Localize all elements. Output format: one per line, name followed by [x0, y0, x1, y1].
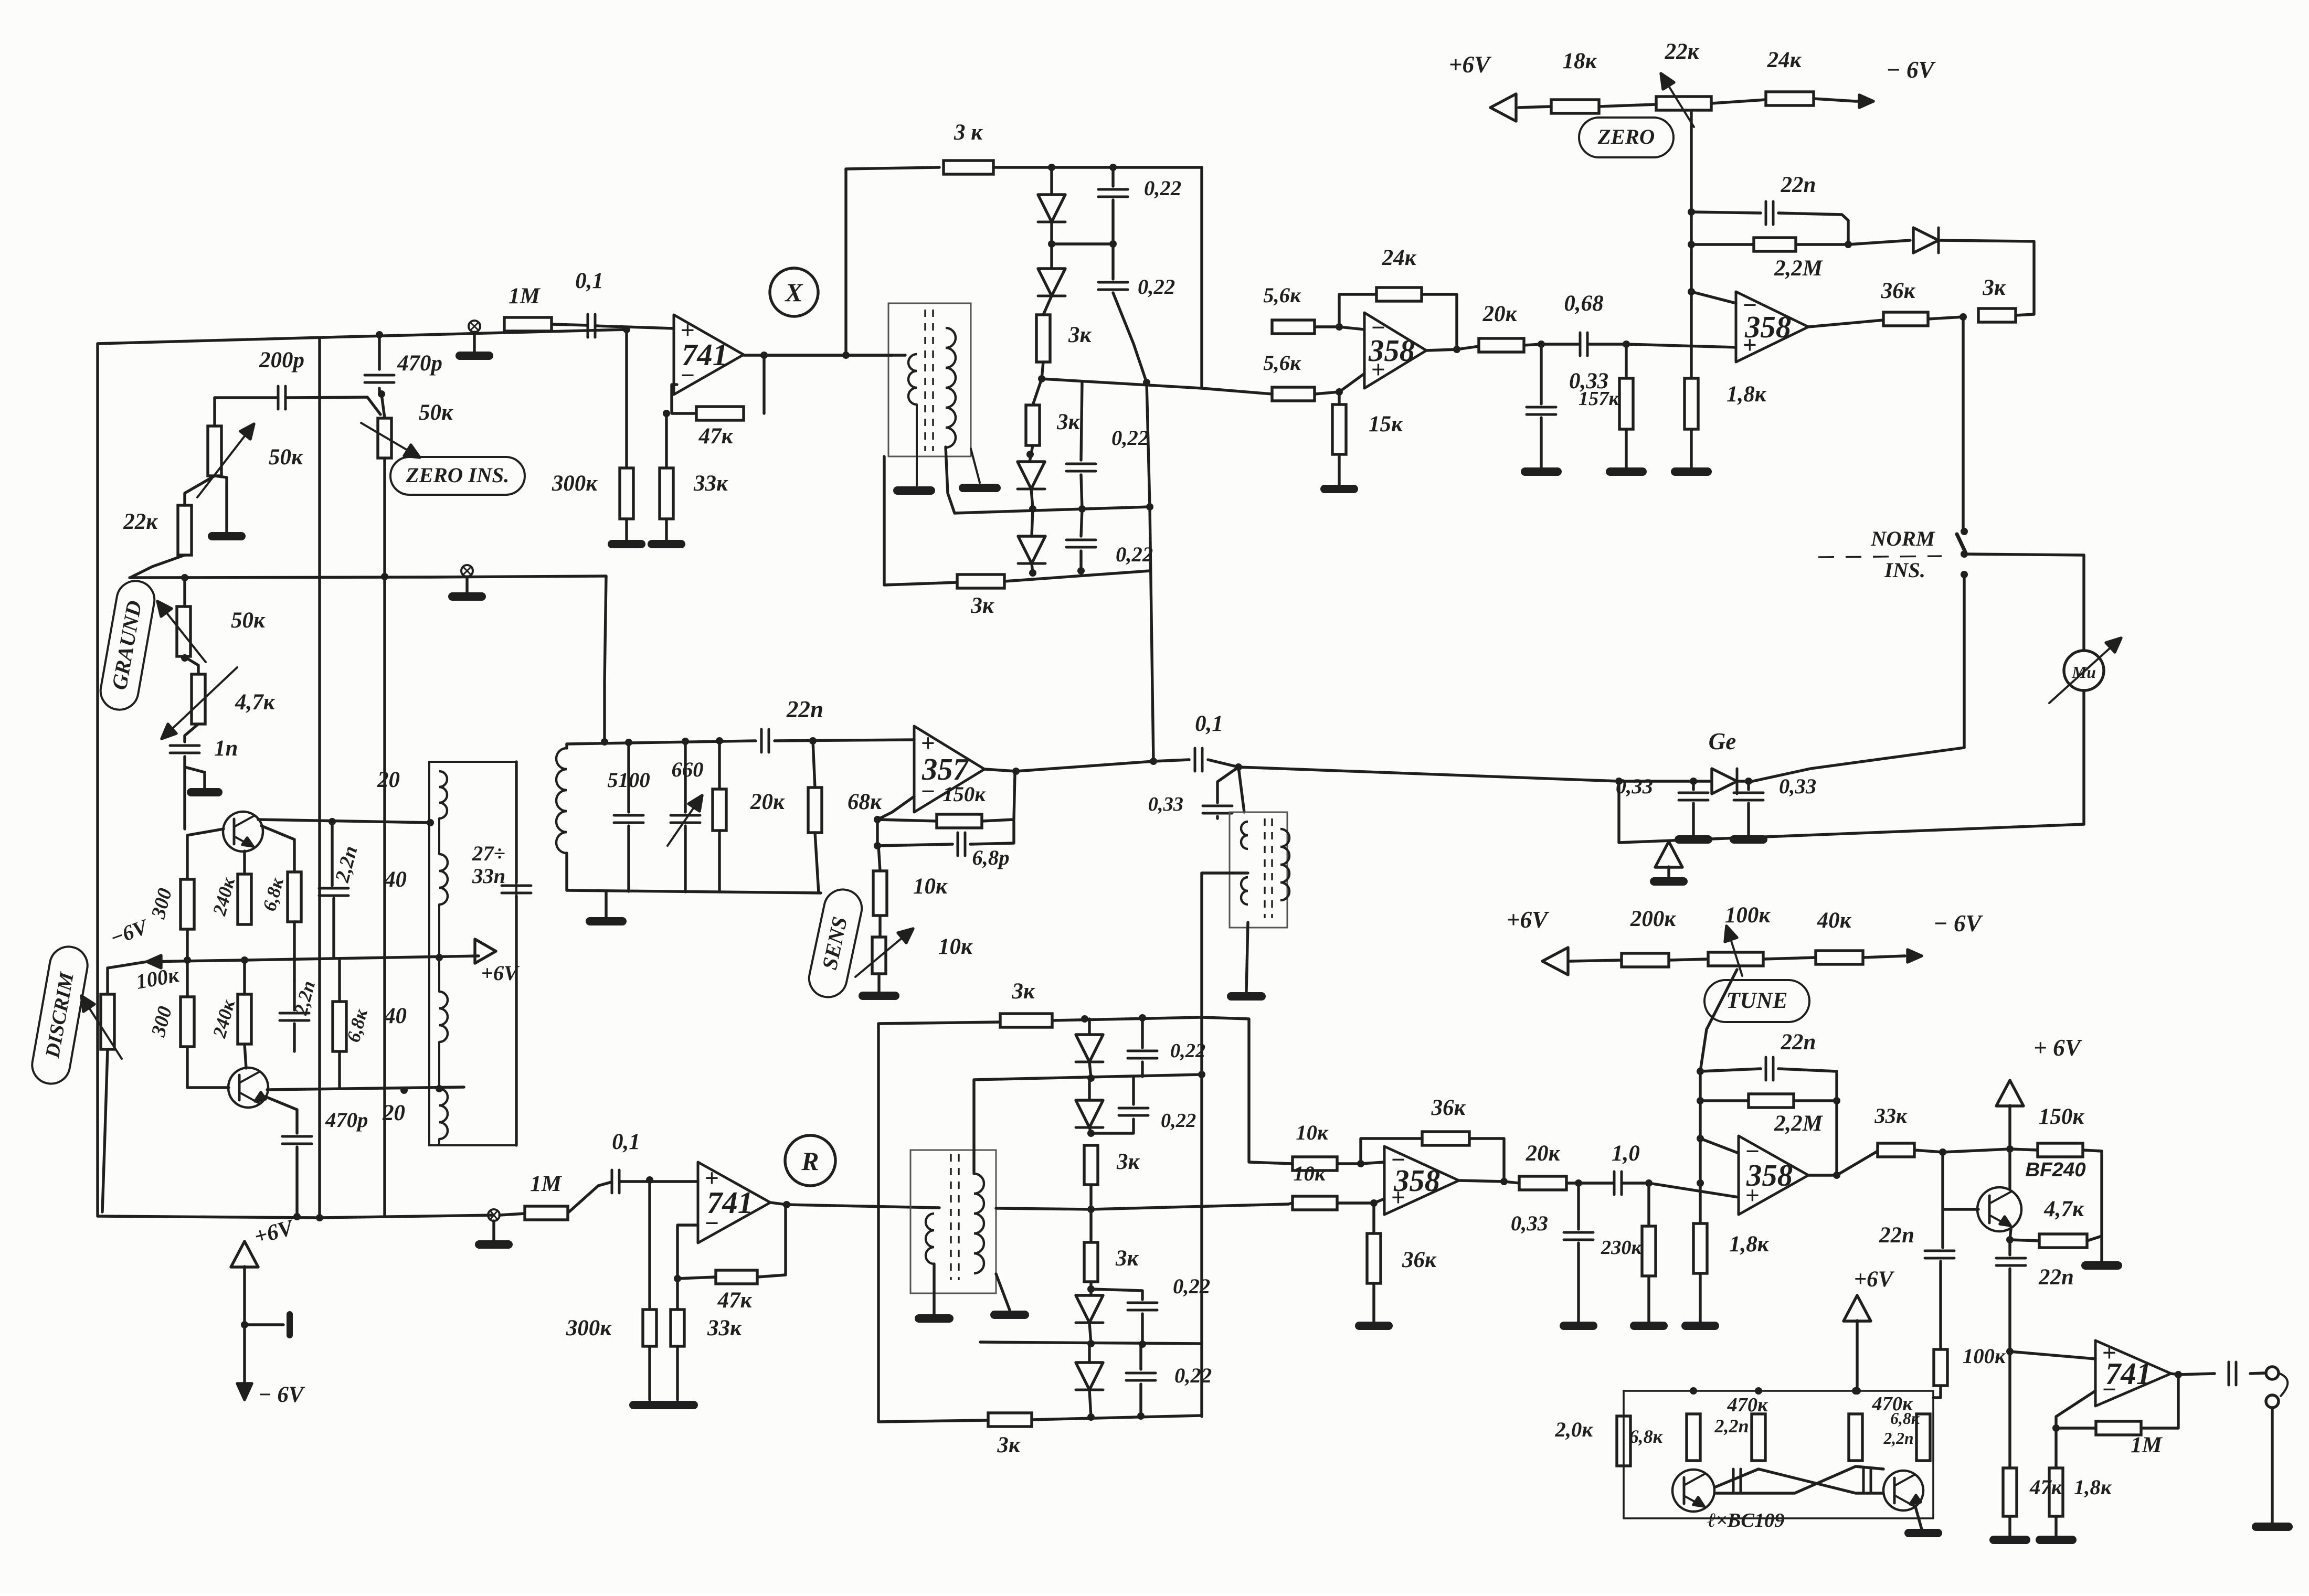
svg-text:470p: 470p — [397, 351, 442, 376]
svg-text:0,33: 0,33 — [1779, 774, 1816, 798]
svg-text:1M: 1M — [530, 1172, 562, 1196]
svg-text:24к: 24к — [1382, 246, 1417, 270]
svg-text:50к: 50к — [231, 608, 266, 633]
svg-text:2,2n: 2,2n — [1714, 1416, 1749, 1437]
svg-text:+6V: +6V — [1854, 1267, 1895, 1292]
svg-text:ZERO INS.: ZERO INS. — [406, 463, 510, 487]
svg-text:3к: 3к — [1116, 1150, 1140, 1174]
svg-text:22n: 22n — [1781, 173, 1816, 197]
svg-text:0,1: 0,1 — [1195, 711, 1223, 736]
svg-text:741: 741 — [682, 338, 728, 372]
svg-text:0,33: 0,33 — [1616, 774, 1653, 798]
svg-text:33к: 33к — [1874, 1104, 1908, 1127]
svg-text:ZERO: ZERO — [1597, 125, 1655, 148]
svg-text:3к: 3к — [970, 593, 994, 618]
svg-text:2,2n: 2,2n — [1883, 1429, 1913, 1448]
svg-text:0,22: 0,22 — [1144, 176, 1181, 200]
svg-text:0,22: 0,22 — [1116, 542, 1153, 566]
svg-text:ℓ×BC109: ℓ×BC109 — [1707, 1509, 1784, 1531]
svg-text:0,33: 0,33 — [1511, 1211, 1548, 1235]
svg-text:20: 20 — [377, 768, 400, 792]
svg-text:358: 358 — [1746, 1158, 1793, 1193]
svg-text:1n: 1n — [214, 736, 238, 761]
svg-text:4,7к: 4,7к — [235, 690, 276, 715]
svg-text:10к: 10к — [1296, 1121, 1329, 1144]
svg-text:100к: 100к — [1725, 903, 1771, 928]
svg-text:1,8к: 1,8к — [1727, 382, 1767, 407]
svg-text:Ge: Ge — [1709, 728, 1736, 754]
svg-text:BF240: BF240 — [2025, 1158, 2085, 1181]
svg-text:20к: 20к — [750, 790, 785, 814]
svg-text:470к: 470к — [1727, 1394, 1768, 1416]
svg-text:+ 6V: + 6V — [2033, 1035, 2083, 1061]
svg-text:10к: 10к — [913, 874, 948, 899]
svg-text:− 6V: − 6V — [1933, 910, 1983, 937]
svg-text:36к: 36к — [1881, 279, 1916, 303]
svg-text:0,22: 0,22 — [1173, 1274, 1210, 1298]
svg-text:200p: 200p — [259, 348, 304, 373]
svg-text:0,22: 0,22 — [1111, 426, 1149, 450]
svg-text:20: 20 — [382, 1101, 405, 1125]
svg-text:40: 40 — [384, 1004, 407, 1028]
svg-text:100к: 100к — [1963, 1344, 2006, 1368]
svg-text:2,2M: 2,2M — [1774, 256, 1824, 281]
svg-text:0,22: 0,22 — [1161, 1110, 1196, 1132]
svg-text:68к: 68к — [848, 790, 882, 814]
svg-text:36к: 36к — [1402, 1248, 1437, 1272]
svg-text:358: 358 — [1744, 310, 1791, 344]
svg-text:150к: 150к — [2039, 1104, 2084, 1129]
svg-text:741: 741 — [707, 1186, 753, 1220]
svg-text:22n: 22n — [1879, 1223, 1914, 1248]
svg-text:1M: 1M — [2131, 1433, 2163, 1457]
svg-text:− 6V: − 6V — [258, 1382, 305, 1407]
svg-text:6,8к: 6,8к — [1629, 1426, 1663, 1447]
svg-text:741: 741 — [2105, 1357, 2152, 1391]
svg-text:3 к: 3 к — [954, 120, 983, 145]
svg-text:2,2M: 2,2M — [1774, 1111, 1824, 1136]
svg-text:300к: 300к — [552, 471, 598, 496]
svg-text:5,6к: 5,6к — [1263, 283, 1301, 307]
svg-text:33к: 33к — [693, 471, 728, 496]
svg-text:33n: 33n — [472, 864, 505, 888]
svg-text:27÷: 27÷ — [472, 842, 505, 865]
svg-text:0,22: 0,22 — [1170, 1040, 1205, 1062]
svg-text:18к: 18к — [1563, 49, 1597, 73]
svg-text:3к: 3к — [1982, 275, 2006, 300]
svg-text:0,1: 0,1 — [575, 269, 603, 293]
svg-text:24к: 24к — [1767, 48, 1802, 72]
svg-text:5,6к: 5,6к — [1263, 351, 1301, 375]
svg-text:357: 357 — [922, 752, 970, 786]
svg-text:47к: 47к — [698, 424, 734, 449]
svg-text:40к: 40к — [1817, 908, 1852, 933]
svg-text:22к: 22к — [1665, 39, 1700, 64]
svg-text:1M: 1M — [509, 284, 541, 308]
svg-text:3к: 3к — [1115, 1246, 1139, 1271]
svg-text:1,0: 1,0 — [1612, 1141, 1640, 1166]
svg-text:0,33: 0,33 — [1148, 793, 1183, 815]
svg-text:+6V: +6V — [1449, 51, 1492, 78]
svg-text:0,68: 0,68 — [1564, 291, 1603, 316]
svg-text:40: 40 — [384, 867, 407, 892]
svg-text:3к: 3к — [1068, 323, 1092, 347]
svg-text:5100: 5100 — [607, 768, 650, 792]
svg-text:300к: 300к — [566, 1316, 612, 1340]
svg-text:10к: 10к — [938, 934, 973, 959]
svg-text:200к: 200к — [1630, 907, 1676, 931]
svg-text:15к: 15к — [1369, 412, 1403, 437]
svg-text:+6V: +6V — [1507, 907, 1550, 933]
svg-text:36к: 36к — [1431, 1095, 1466, 1120]
svg-text:50к: 50к — [269, 445, 303, 470]
svg-text:47к: 47к — [717, 1288, 753, 1313]
svg-text:NORM: NORM — [1870, 527, 1936, 550]
svg-text:358: 358 — [1393, 1164, 1440, 1198]
svg-text:230к: 230к — [1601, 1237, 1643, 1259]
svg-text:20к: 20к — [1526, 1141, 1561, 1166]
svg-text:INS.: INS. — [1884, 558, 1925, 582]
svg-text:3к: 3к — [997, 1433, 1020, 1457]
svg-text:3к: 3к — [1056, 410, 1080, 434]
svg-text:150к: 150к — [942, 782, 986, 806]
svg-text:0,22: 0,22 — [1174, 1364, 1212, 1387]
svg-text:0,1: 0,1 — [612, 1130, 640, 1154]
svg-text:358: 358 — [1368, 334, 1415, 368]
svg-text:1,8к: 1,8к — [2074, 1475, 2112, 1499]
svg-text:X: X — [784, 278, 803, 307]
svg-text:33к: 33к — [707, 1316, 742, 1340]
svg-text:+6V: +6V — [481, 961, 520, 985]
svg-text:1,8к: 1,8к — [1729, 1232, 1770, 1257]
svg-text:660: 660 — [671, 758, 703, 781]
svg-text:22к: 22к — [123, 509, 158, 534]
svg-text:10к: 10к — [1293, 1162, 1326, 1185]
svg-text:47к: 47к — [2029, 1475, 2063, 1499]
svg-text:R: R — [801, 1147, 819, 1176]
svg-text:4,7к: 4,7к — [2043, 1197, 2084, 1221]
svg-text:50к: 50к — [419, 400, 453, 425]
svg-text:6,8p: 6,8p — [972, 846, 1009, 869]
svg-text:− 6V: − 6V — [1886, 57, 1936, 83]
svg-text:0,22: 0,22 — [1138, 275, 1175, 299]
svg-text:470p: 470p — [325, 1108, 368, 1132]
svg-text:22n: 22n — [2038, 1265, 2074, 1290]
svg-text:157к: 157к — [1579, 388, 1620, 410]
svg-text:3к: 3к — [1011, 979, 1035, 1004]
svg-text:2,0к: 2,0к — [1555, 1418, 1594, 1441]
svg-text:TUNE: TUNE — [1727, 988, 1788, 1013]
svg-text:6,8к: 6,8к — [1890, 1409, 1920, 1428]
svg-text:22n: 22n — [786, 696, 823, 722]
svg-text:20к: 20к — [1482, 302, 1518, 326]
svg-text:22n: 22n — [1781, 1030, 1816, 1055]
